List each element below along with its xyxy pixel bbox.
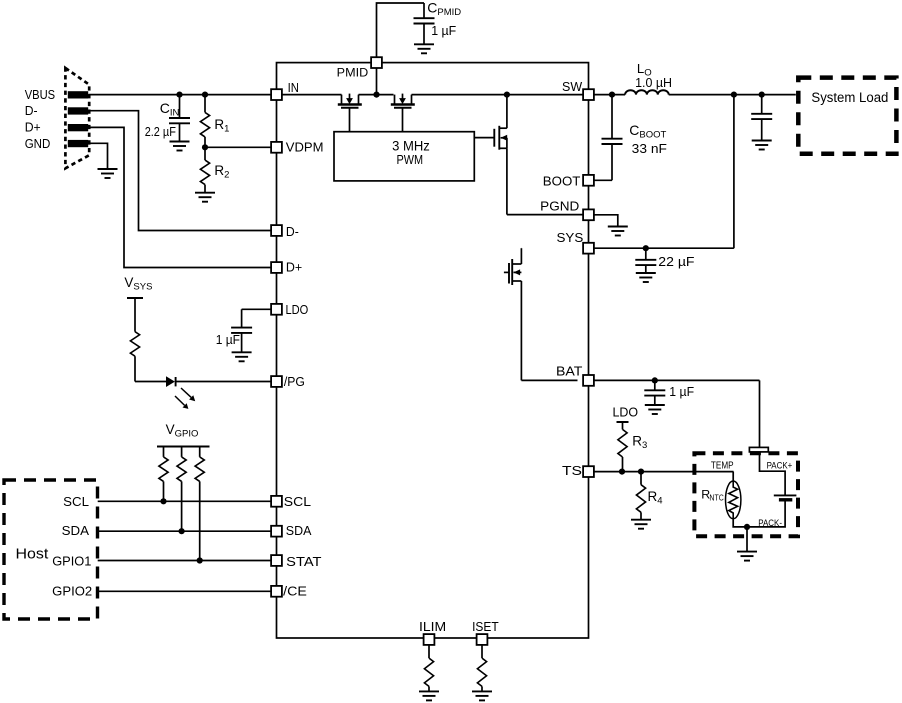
ground output cap xyxy=(752,141,772,150)
svg-text:D-: D- xyxy=(286,224,299,239)
node R1-R2-VDPM junction xyxy=(202,144,208,150)
pin D+ xyxy=(271,262,282,273)
resistor R2 xyxy=(200,147,209,192)
svg-text:GPIO1: GPIO1 xyxy=(52,554,91,569)
svg-text:System Load: System Load xyxy=(811,90,888,106)
svg-text:LDO: LDO xyxy=(613,406,639,420)
resistor R4 xyxy=(636,472,645,520)
ground CPMID xyxy=(414,44,434,53)
wire internal IN-SW rail xyxy=(277,94,589,96)
wire GPIO2-CE xyxy=(98,590,277,592)
capacitor CBOOT xyxy=(594,95,623,181)
LED arrow 2 xyxy=(175,396,185,405)
pin IN xyxy=(271,89,282,100)
wire pack ground xyxy=(746,527,748,552)
svg-text:TS: TS xyxy=(562,463,582,478)
wire VSYS to LED xyxy=(135,381,166,383)
ground PGND xyxy=(608,227,628,236)
ground ISET xyxy=(472,691,492,700)
resistor R3 xyxy=(618,422,627,472)
capacitor output xyxy=(751,95,772,141)
ground USB xyxy=(98,169,118,178)
ground pack xyxy=(737,552,757,561)
resistor R8 STAT pullup xyxy=(195,447,204,561)
resistor R6 SCL pullup xyxy=(159,447,168,502)
pin TS xyxy=(583,466,594,477)
resistor R5 VSYS xyxy=(130,298,139,382)
pin SDA xyxy=(271,526,282,537)
pin SYS xyxy=(583,243,594,254)
svg-text:1 µF: 1 µF xyxy=(431,23,456,38)
svg-text:BOOT: BOOT xyxy=(543,173,581,188)
wire PACK- xyxy=(733,502,785,527)
pin ISET xyxy=(477,634,488,645)
node SCL pullup junction xyxy=(160,498,166,504)
block 3MHz PWM xyxy=(334,132,474,181)
svg-text:VBUS: VBUS xyxy=(25,87,56,102)
ground R2 xyxy=(195,193,215,202)
wire PMID up xyxy=(377,3,425,63)
svg-text:PACK+: PACK+ xyxy=(767,460,793,471)
pin PMID xyxy=(371,57,382,68)
node VBUS-R1 junction xyxy=(202,92,208,98)
transistor Q2 PMOS xyxy=(391,94,415,132)
pin /PG xyxy=(271,376,282,387)
svg-text:ILIM: ILIM xyxy=(419,620,446,634)
thermistor RNTC xyxy=(726,481,741,519)
node BAT-1uF junction xyxy=(652,377,658,383)
pin D- xyxy=(271,225,282,236)
supply bar VGPIO xyxy=(157,446,210,448)
wire PGND to ground xyxy=(594,215,618,227)
capacitor 1uF LDO xyxy=(231,309,271,352)
svg-text:/PG: /PG xyxy=(284,374,305,389)
svg-text:SCL: SCL xyxy=(63,494,89,509)
transistor Q3 NMOS xyxy=(474,95,583,215)
svg-text:IN: IN xyxy=(288,80,299,95)
node output cap junction xyxy=(759,92,765,98)
IC U1 charger outline xyxy=(277,63,589,638)
svg-text:SDA: SDA xyxy=(286,523,312,538)
wire SYS riser xyxy=(733,95,735,249)
wire GPIO1-STAT xyxy=(98,560,277,562)
svg-text:D+: D+ xyxy=(25,120,41,135)
ground R4 xyxy=(631,520,651,529)
wire VBUS to IN xyxy=(89,94,277,96)
wire VDPM xyxy=(205,146,277,148)
wire SYS right xyxy=(594,247,734,249)
svg-text:1.0 µH: 1.0 µH xyxy=(635,75,672,90)
pin SCL xyxy=(271,496,282,507)
transistor Q4 NMOS xyxy=(504,248,578,380)
wire USB GND xyxy=(89,143,108,169)
ground 1uF BAT xyxy=(645,405,665,414)
pin PGND xyxy=(583,209,594,220)
svg-text:SCL: SCL xyxy=(284,494,311,509)
supply bar LDO xyxy=(617,421,629,423)
svg-text:GPIO2: GPIO2 xyxy=(52,583,92,598)
svg-text:33 nF: 33 nF xyxy=(632,141,667,156)
svg-text:PWM: PWM xyxy=(397,152,424,167)
pack connector xyxy=(749,447,768,452)
battery pack outline xyxy=(694,453,798,536)
ground 1uF LDO xyxy=(232,352,252,361)
svg-text:22 µF: 22 µF xyxy=(658,254,694,269)
node PMID rail junction xyxy=(373,92,379,98)
pin BAT xyxy=(583,375,594,386)
USB pad VBUS xyxy=(68,91,88,98)
node SW-CBOOT junction xyxy=(609,92,615,98)
USB connector J1 outline xyxy=(65,68,89,168)
svg-text:D-: D- xyxy=(25,103,38,118)
System Load outline xyxy=(798,78,896,154)
wire D- to pin xyxy=(89,111,277,231)
svg-text:D+: D+ xyxy=(286,260,302,275)
svg-text:BAT: BAT xyxy=(556,363,582,378)
svg-text:2.2 µF: 2.2 µF xyxy=(145,125,177,139)
svg-text:NTC: NTC xyxy=(709,492,723,502)
svg-text:ISET: ISET xyxy=(472,620,499,634)
ground CIN xyxy=(170,142,190,151)
capacitor CIN xyxy=(169,95,190,142)
supply bar VSYS xyxy=(127,297,143,299)
svg-text:SYS: SYS xyxy=(557,230,584,245)
pin STAT xyxy=(271,555,282,566)
svg-text:1 µF: 1 µF xyxy=(669,384,694,399)
wire SW to inductor xyxy=(589,94,626,96)
svg-text:STAT: STAT xyxy=(286,554,321,569)
transistor Q1 PMOS xyxy=(338,94,362,132)
wire SCL xyxy=(98,500,277,502)
node VBUS-CIN junction xyxy=(176,92,182,98)
node Q3 drain junction xyxy=(504,92,510,98)
wire SDA xyxy=(98,530,277,532)
svg-text:Host: Host xyxy=(16,546,50,563)
pin LDO xyxy=(271,304,282,315)
battery cell B1 xyxy=(774,495,797,499)
resistor R7 SDA pullup xyxy=(177,447,186,532)
svg-text:PMID: PMID xyxy=(337,66,369,80)
pin /CE xyxy=(271,586,282,597)
wire SYS left xyxy=(520,247,522,249)
svg-text:/CE: /CE xyxy=(283,583,307,598)
svg-text:SW: SW xyxy=(562,79,583,94)
svg-text:TEMP: TEMP xyxy=(711,461,734,472)
capacitor CPMID xyxy=(414,3,435,44)
node PACK- junction xyxy=(744,524,750,530)
svg-text:PACK-: PACK- xyxy=(758,518,782,529)
node SYS-22uF junction xyxy=(643,245,649,251)
wire inductor to load xyxy=(669,94,796,96)
svg-text:GND: GND xyxy=(25,136,51,151)
ground ILIM xyxy=(419,691,439,700)
node R4-TS junction xyxy=(638,469,644,475)
wire pack PACK+ xyxy=(760,452,786,495)
svg-text:LDO: LDO xyxy=(286,302,309,317)
pin VDPM xyxy=(271,142,282,153)
wire PMID down to rail xyxy=(376,63,378,95)
pin BOOT xyxy=(583,175,594,186)
svg-text:SDA: SDA xyxy=(62,523,90,538)
svg-text:VDPM: VDPM xyxy=(286,140,324,155)
resistor R10 ISET xyxy=(477,643,486,691)
svg-text:PGND: PGND xyxy=(540,198,579,213)
wire LED to PG xyxy=(176,381,277,383)
wire D+ to pin xyxy=(89,127,277,267)
pin SW xyxy=(583,89,594,100)
USB pad GND xyxy=(68,140,88,147)
pin ILIM xyxy=(424,634,435,645)
node SYS riser junction xyxy=(731,92,737,98)
node STAT pullup junction xyxy=(197,557,203,563)
capacitor 1uF BAT xyxy=(644,380,665,405)
node R3-TS junction xyxy=(619,469,625,475)
wire TS xyxy=(594,471,734,473)
ground 22uF xyxy=(636,273,656,282)
wire BAT riser to pack xyxy=(759,380,761,447)
resistor R9 ILIM xyxy=(424,643,433,691)
wire BAT right xyxy=(594,379,760,381)
USB pad D+ xyxy=(68,124,88,131)
node SDA pullup junction xyxy=(179,528,185,534)
wire TEMP into pack xyxy=(732,472,734,481)
Host box outline xyxy=(4,480,98,619)
svg-text:1 µF: 1 µF xyxy=(216,332,240,347)
capacitor 22uF xyxy=(635,248,656,273)
LED arrow 1 xyxy=(181,388,191,397)
resistor R1 xyxy=(200,95,209,148)
LED D1 xyxy=(166,376,176,387)
inductor LO xyxy=(625,90,669,94)
USB pad D- xyxy=(68,107,88,114)
